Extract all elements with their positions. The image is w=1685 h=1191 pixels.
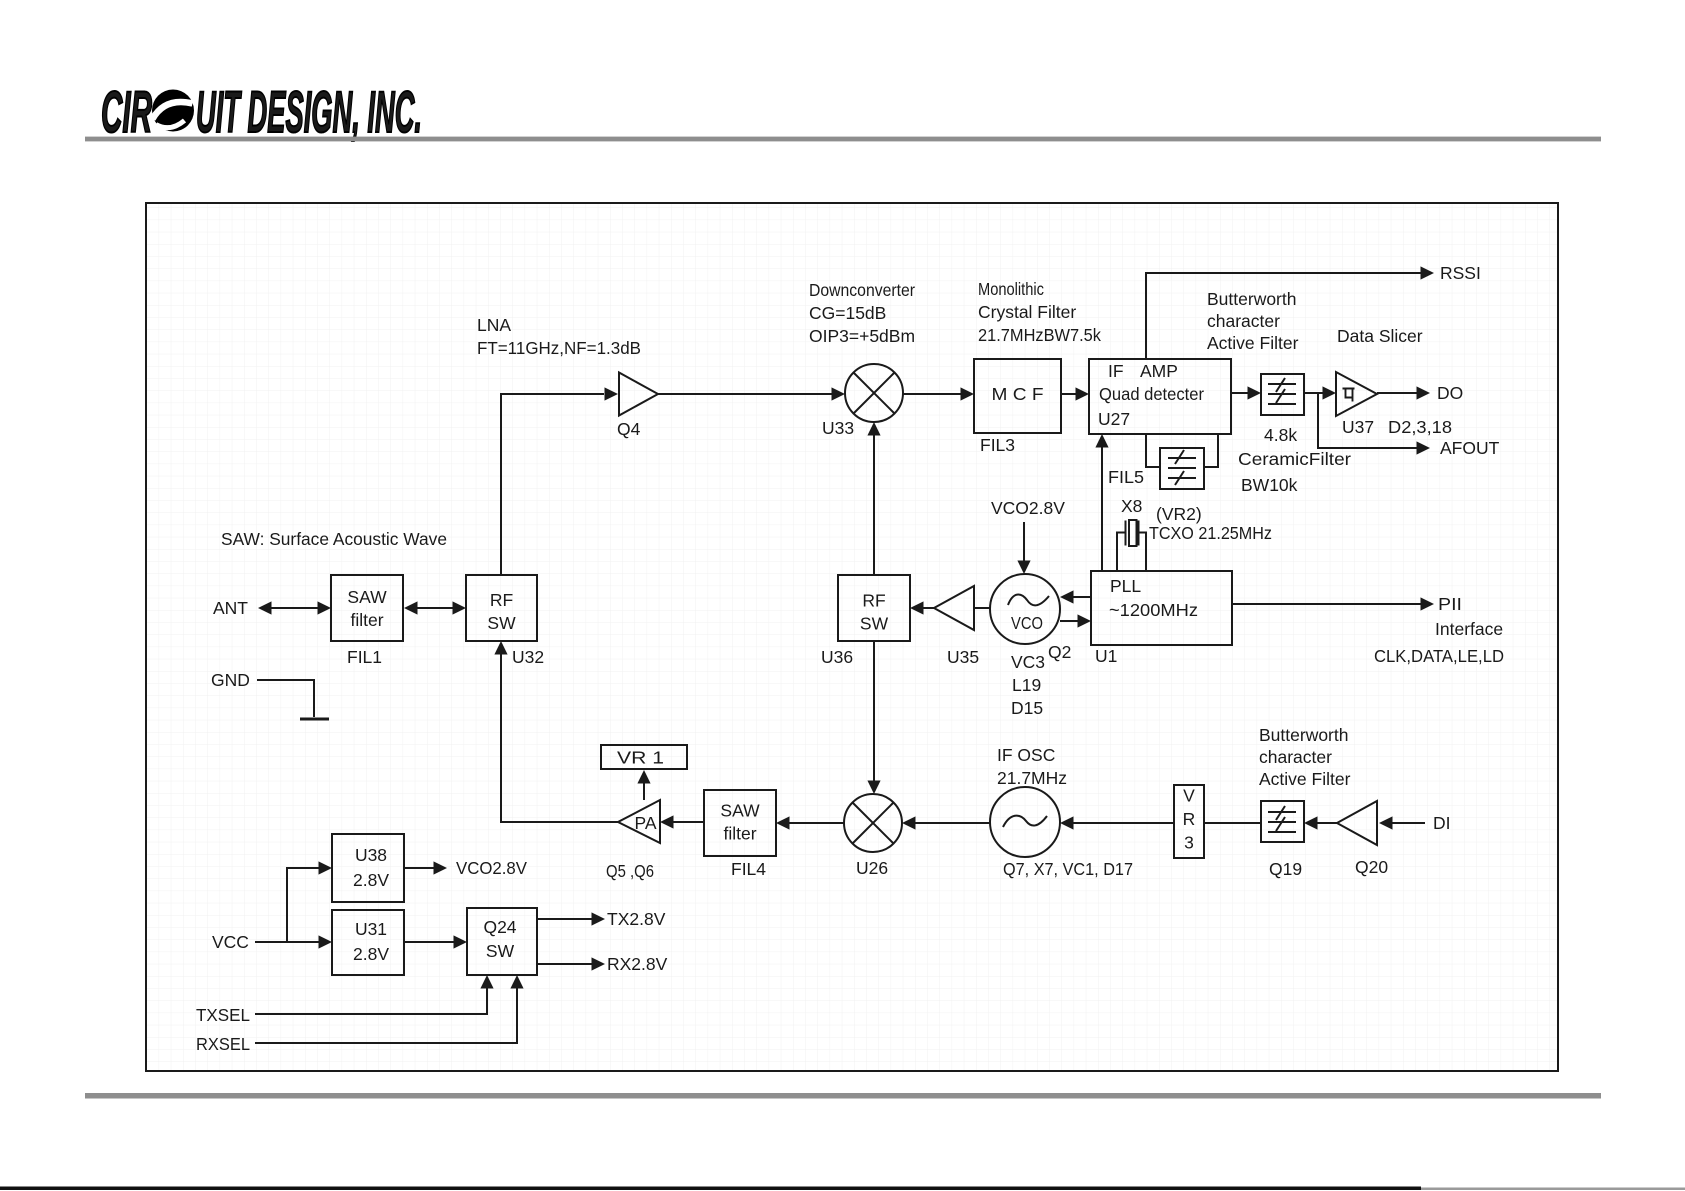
svg-text:R: R (1183, 809, 1196, 829)
IF amp quad detector U27 box (1089, 359, 1231, 434)
oscillator IF OSC (990, 787, 1060, 857)
wire MCF to U27 (1061, 393, 1076, 395)
svg-text:SW: SW (486, 941, 515, 961)
switch Q24 box (467, 908, 537, 975)
svg-text:IF: IF (1108, 361, 1124, 381)
wire Q20 to Q19 (1317, 822, 1337, 824)
arrow into MCF (961, 387, 975, 400)
svg-text:Q5 ,Q6: Q5 ,Q6 (606, 861, 654, 881)
arrow RX2.8V (592, 957, 606, 970)
wire U32 top to LNA input (501, 394, 604, 576)
wire U31 to Q24 (404, 941, 454, 943)
svg-text:U27: U27 (1098, 409, 1130, 429)
svg-text:D15: D15 (1011, 698, 1043, 718)
svg-text:Monolithic: Monolithic (978, 279, 1044, 299)
arrow into active filter (1248, 386, 1262, 399)
arrow into PLL left (1078, 614, 1092, 627)
wire AFOUT branch (1318, 393, 1417, 448)
arrow into PA right (660, 815, 674, 828)
ceramic filter FIL5 box (1160, 448, 1204, 489)
svg-text:SW: SW (860, 614, 889, 634)
svg-text:RSSI: RSSI (1440, 263, 1481, 283)
arrow into FIL1 right (404, 601, 418, 614)
svg-text:Data Slicer: Data Slicer (1337, 326, 1423, 346)
svg-text:~1200MHz: ~1200MHz (1109, 600, 1198, 620)
svg-text:Butterworth: Butterworth (1207, 289, 1296, 309)
svg-text:3: 3 (1184, 833, 1194, 853)
wire U27 bottom to FIL5 left (1146, 434, 1160, 467)
svg-text:CIR: CIR (101, 80, 152, 145)
wire U35 to U36 (923, 607, 934, 609)
arrow PII (1421, 597, 1435, 610)
data slicer U37 (1336, 372, 1377, 416)
svg-text:(VR2): (VR2) (1156, 504, 1202, 524)
arrow into VCO top (1017, 561, 1030, 575)
svg-text:TX2.8V: TX2.8V (607, 909, 666, 929)
monolithic crystal filter FIL3 box (974, 359, 1061, 433)
wire Q4 to U33 (658, 393, 832, 395)
arrow RXSEL into Q24 (510, 975, 523, 989)
wire U33 to MCF (903, 393, 961, 395)
svg-text:U32: U32 (512, 647, 544, 667)
svg-text:SAW: SAW (347, 587, 387, 607)
wire FIL4 to PA (673, 821, 704, 823)
svg-text:U1: U1 (1095, 646, 1117, 666)
wire crystal right lead (1140, 533, 1147, 572)
svg-text:CLK,DATA,LE,LD: CLK,DATA,LE,LD (1374, 646, 1504, 666)
wire Q19 to VR3 (1204, 822, 1261, 824)
wire TXSEL (255, 988, 487, 1014)
wire ANT to FIL1 (269, 607, 320, 609)
svg-text:U36: U36 (821, 647, 853, 667)
logo circle-G emblem (152, 90, 194, 132)
svg-text:SW: SW (487, 613, 516, 633)
svg-text:RX2.8V: RX2.8V (607, 954, 668, 974)
diagram frame (146, 203, 1558, 1071)
svg-text:M C F: M C F (992, 384, 1044, 404)
svg-text:VCO2.8V: VCO2.8V (991, 498, 1065, 518)
svg-text:CG=15dB: CG=15dB (809, 303, 886, 323)
svg-text:CeramicFilter: CeramicFilter (1238, 449, 1351, 469)
butterworth active filter box 4.8k (1261, 374, 1304, 415)
svg-text:FT=11GHz,NF=1.3dB: FT=11GHz,NF=1.3dB (477, 338, 641, 358)
arrow into VCO right (1060, 590, 1074, 603)
header rule bar (85, 137, 1601, 142)
wire U38 to VCO2.8V (404, 867, 434, 869)
RF switch U32 box (466, 575, 537, 641)
wire RSSI from U27 top (1146, 273, 1421, 359)
arrow into Q20 right (1379, 816, 1393, 829)
arrow into U31 left (319, 935, 333, 948)
mixer U26 (844, 794, 902, 852)
wire VCC trunk (255, 868, 319, 942)
wire U36 top to U33 bottom (873, 435, 875, 575)
svg-text:V: V (1183, 786, 1195, 806)
svg-text:RXSEL: RXSEL (196, 1034, 250, 1054)
SAW filter FIL1 box (331, 575, 403, 641)
svg-text:UIT DESIGN, INC.: UIT DESIGN, INC. (196, 80, 422, 145)
svg-text:PA: PA (634, 813, 656, 833)
svg-text:U35: U35 (947, 647, 979, 667)
wire GND (257, 680, 314, 717)
arrow TX2.8V (592, 912, 606, 925)
svg-text:Q2: Q2 (1048, 642, 1071, 662)
svg-text:U37: U37 (1342, 417, 1374, 437)
svg-text:PLL: PLL (1110, 576, 1141, 596)
svg-text:FIL4: FIL4 (731, 859, 766, 879)
arrow into U37 (1323, 386, 1337, 399)
wire VR3 to IFOSC (1073, 822, 1174, 824)
svg-text:U33: U33 (822, 418, 854, 438)
svg-text:2.8V: 2.8V (353, 944, 389, 964)
svg-text:SAW: Surface Acoustic Wave: SAW: Surface Acoustic Wave (221, 529, 447, 549)
wire U36 bottom to U26 top (873, 641, 875, 782)
svg-text:Crystal Filter: Crystal Filter (978, 302, 1076, 322)
svg-text:Q4: Q4 (617, 419, 641, 439)
wire PA to VR1 (643, 782, 645, 800)
svg-text:U31: U31 (355, 919, 387, 939)
wire U27 to active filter (1231, 392, 1248, 394)
svg-text:LNA: LNA (477, 315, 511, 335)
wire U26 to FIL4 (789, 822, 844, 824)
svg-text:Q20: Q20 (1355, 857, 1388, 877)
svg-text:Butterworth: Butterworth (1259, 725, 1348, 745)
svg-text:TXSEL: TXSEL (196, 1005, 250, 1025)
svg-text:character: character (1207, 311, 1280, 331)
arrow DO (1417, 386, 1431, 399)
regulator U31 box (332, 910, 404, 975)
wire crystal left lead (1117, 533, 1125, 572)
wire U27 bottom to FIL5 right (1204, 434, 1218, 467)
wire U37 to DO (1377, 392, 1417, 394)
svg-text:VCO: VCO (1011, 613, 1043, 633)
box VR 1 (601, 745, 687, 769)
mixer U33 (845, 364, 903, 422)
arrow into VR1 bottom (637, 770, 650, 784)
amplifier Q4 (619, 373, 658, 416)
svg-text:21.7MHzBW7.5k: 21.7MHzBW7.5k (978, 325, 1101, 345)
wire Q24 to RX2.8V (537, 963, 592, 965)
svg-text:VCO2.8V: VCO2.8V (456, 858, 527, 878)
svg-text:FIL5: FIL5 (1108, 467, 1144, 487)
arrow into U26 right (902, 816, 916, 829)
svg-text:2.8V: 2.8V (353, 870, 389, 890)
svg-text:RF: RF (490, 590, 513, 610)
svg-text:Quad detecter: Quad detecter (1099, 384, 1204, 404)
wire PLL to VCO (1073, 596, 1091, 598)
arrow into ANT (258, 601, 272, 614)
svg-text:21.7MHz: 21.7MHz (997, 768, 1067, 788)
svg-text:Q19: Q19 (1269, 859, 1302, 879)
hysteresis symbol in U37 (1343, 389, 1355, 402)
svg-text:IF OSC: IF OSC (997, 745, 1055, 765)
wire VCO to PLL (1060, 620, 1078, 622)
svg-text:FIL1: FIL1 (347, 647, 382, 667)
svg-text:GND: GND (211, 670, 250, 690)
amplifier U35 (934, 586, 974, 630)
arrow into U32 left (453, 601, 467, 614)
wire PLL top to U27 bottom (1101, 446, 1103, 571)
svg-text:Active Filter: Active Filter (1207, 333, 1299, 353)
arrow RSSI (1421, 266, 1435, 279)
arrow into U32 bottom (494, 641, 507, 655)
svg-text:U26: U26 (856, 858, 888, 878)
company logo text CIRCUIT DESIGN, INC. (101, 80, 422, 145)
page bottom gray line (1421, 1188, 1685, 1191)
arrow into U38 left (319, 861, 333, 874)
arrow into FIL4 right (776, 816, 790, 829)
SAW filter FIL4 box (704, 790, 776, 856)
wire Q24 to TX2.8V (537, 918, 592, 920)
arrow into U27 (1076, 387, 1090, 400)
arrow into U33 (832, 387, 846, 400)
arrow into U27 bottom (1095, 434, 1108, 448)
footer rule bar (85, 1093, 1601, 1099)
box VR3 (1174, 785, 1204, 858)
svg-text:U38: U38 (355, 845, 387, 865)
regulator U38 box (332, 834, 404, 902)
butterworth active filter Q19 box (1261, 801, 1304, 842)
svg-text:filter: filter (723, 824, 756, 844)
svg-text:FIL3: FIL3 (980, 435, 1015, 455)
svg-text:PII: PII (1438, 594, 1462, 614)
svg-text:ANT: ANT (213, 598, 248, 618)
amplifier Q20 (1337, 801, 1377, 845)
svg-text:VC3: VC3 (1011, 652, 1045, 672)
svg-text:X8: X8 (1121, 496, 1142, 516)
arrow into Q4 (605, 387, 619, 400)
arrow into IFOSC right (1060, 816, 1074, 829)
arrow into U26 top (867, 781, 880, 795)
arrow VCO2.8V out (434, 861, 448, 874)
arrow into FIL1 left (318, 601, 332, 614)
svg-text:filter: filter (350, 610, 383, 630)
wire RXSEL (255, 988, 517, 1043)
svg-text:AMP: AMP (1140, 361, 1178, 381)
svg-text:BW10k: BW10k (1241, 475, 1298, 495)
wire FIL1 to U32 (415, 607, 453, 609)
RF switch U36 box (838, 575, 910, 641)
wire PLL to PII interface (1232, 603, 1421, 605)
power amplifier PA (618, 800, 660, 843)
svg-text:SAW: SAW (720, 801, 760, 821)
arrow into U33 bottom (867, 422, 880, 436)
svg-text:4.8k: 4.8k (1264, 425, 1297, 445)
svg-text:Q7, X7, VC1, D17: Q7, X7, VC1, D17 (1003, 859, 1133, 879)
svg-text:VCC: VCC (212, 932, 249, 952)
wire DI to Q20 (1392, 822, 1425, 824)
arrow into Q24 left (454, 935, 468, 948)
arrow AFOUT (1417, 441, 1431, 454)
page bottom black line (0, 1187, 1421, 1191)
ground symbol (300, 718, 329, 721)
svg-text:DI: DI (1433, 813, 1451, 833)
crystal X8 (1126, 520, 1139, 546)
svg-text:Active Filter: Active Filter (1259, 769, 1351, 789)
svg-text:Downconverter: Downconverter (809, 280, 915, 300)
wire IFOSC to U26 (915, 822, 990, 824)
wire PA to U32 bottom (501, 654, 618, 822)
svg-text:L19: L19 (1012, 675, 1041, 695)
arrow into Q19 right (1304, 816, 1318, 829)
arrow into U36 right (910, 601, 924, 614)
wire filter to U37 with AFOUT junction (1304, 392, 1323, 394)
svg-text:TCXO 21.25MHz: TCXO 21.25MHz (1149, 523, 1272, 543)
svg-text:AFOUT: AFOUT (1440, 438, 1500, 458)
wire VCO2.8V arrow down (1023, 522, 1025, 562)
svg-text:RF: RF (862, 591, 885, 611)
oscillator VCO (990, 574, 1060, 644)
svg-text:D2,3,18: D2,3,18 (1388, 417, 1452, 437)
svg-text:VR 1: VR 1 (617, 748, 664, 768)
arrow TXSEL into Q24 (480, 975, 493, 989)
PLL box U1 (1091, 571, 1232, 645)
svg-text:character: character (1259, 747, 1332, 767)
svg-text:DO: DO (1437, 383, 1463, 403)
svg-text:Interface: Interface (1435, 619, 1503, 639)
wire VCO to U35 (974, 607, 990, 609)
svg-text:OIP3=+5dBm: OIP3=+5dBm (809, 326, 915, 346)
svg-text:Q24: Q24 (483, 917, 516, 937)
